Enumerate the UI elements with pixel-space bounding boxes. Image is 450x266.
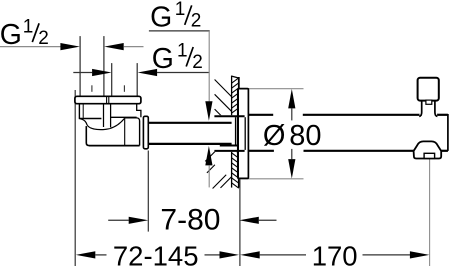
svg-text:72-145: 72-145 <box>113 240 199 266</box>
svg-text:2: 2 <box>192 52 203 73</box>
svg-text:Ø: Ø <box>263 120 286 152</box>
svg-text:170: 170 <box>312 240 358 266</box>
svg-text:2: 2 <box>191 11 202 32</box>
svg-text:2: 2 <box>38 28 49 49</box>
svg-text:G: G <box>152 43 174 75</box>
svg-text:1: 1 <box>175 0 186 20</box>
svg-text:7-80: 7-80 <box>160 204 220 237</box>
svg-text:G: G <box>0 19 22 51</box>
svg-text:1: 1 <box>177 40 188 61</box>
svg-text:G: G <box>150 2 172 34</box>
svg-text:1: 1 <box>23 16 34 37</box>
svg-text:80: 80 <box>289 120 321 152</box>
